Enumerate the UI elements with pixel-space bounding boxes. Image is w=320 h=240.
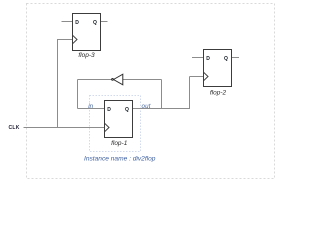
svg-text:Q: Q — [93, 20, 97, 26]
svg-text:Q: Q — [224, 56, 228, 62]
svg-text:in: in — [88, 103, 93, 110]
svg-text:D: D — [107, 107, 111, 113]
svg-text:Instance name : div2flop: Instance name : div2flop — [84, 155, 156, 162]
svg-text:CLK: CLK — [9, 125, 20, 131]
svg-text:out: out — [142, 103, 151, 110]
svg-text:flop-3: flop-3 — [78, 52, 95, 59]
svg-text:D: D — [206, 56, 210, 62]
svg-text:D: D — [75, 20, 79, 26]
svg-text:Q: Q — [125, 107, 129, 113]
svg-text:flop-2: flop-2 — [210, 89, 227, 96]
svg-text:flop-1: flop-1 — [111, 140, 128, 147]
